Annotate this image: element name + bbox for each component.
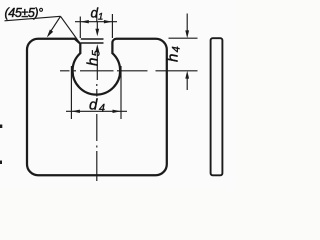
h5 lower shaft with up arrow xyxy=(96,50,98,81)
slot mouth inner edge (lower) xyxy=(81,42,104,44)
scan speck upper xyxy=(0,125,2,129)
h4 dimension upper arrow xyxy=(186,14,188,33)
chamfer extension leg xyxy=(61,16,81,43)
d4 arrow left xyxy=(71,110,80,113)
angle label underline / leader to vertex xyxy=(5,16,61,21)
vertical centerline xyxy=(96,14,98,182)
d4 arrow right xyxy=(113,110,122,113)
side view rectangle xyxy=(211,38,223,175)
d1 extension line right xyxy=(111,14,113,38)
d1 extension line left xyxy=(79,17,81,39)
plate outline (front view with keyhole slot mouth) xyxy=(27,39,167,176)
horizontal centerline xyxy=(60,70,198,72)
d4 extension line right xyxy=(120,66,122,119)
d4 extension line left xyxy=(70,66,72,119)
slot mouth inner edge (upper) xyxy=(81,38,104,40)
d1 arrow left xyxy=(80,20,89,23)
h5 upper shaft with down arrow xyxy=(96,22,98,31)
d4 dimension line xyxy=(66,110,127,112)
d1 arrow right xyxy=(104,20,113,23)
h4 dimension lower arrow xyxy=(186,76,188,90)
scan speck lower xyxy=(0,161,2,165)
angle leg with arrow to top edge xyxy=(49,16,61,34)
d1 dimension line xyxy=(75,21,117,23)
h4 top edge extension line xyxy=(169,37,198,39)
